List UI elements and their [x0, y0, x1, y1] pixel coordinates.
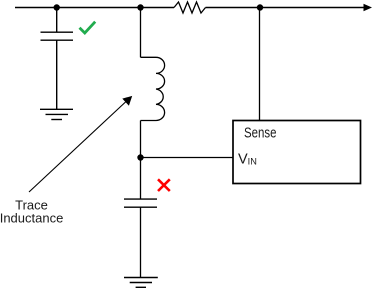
check mark (good capacitor): [80, 22, 96, 33]
wire: node B down to inductor: [140, 8, 142, 58]
wire: node C down to sense box: [259, 8, 261, 121]
svg-text:Sense: Sense: [244, 126, 277, 142]
svg-text:VIN: VIN: [238, 151, 257, 167]
capacitor C2: [124, 199, 157, 207]
wire: node D to VIN pin of sense box: [141, 157, 234, 159]
wire: C1 to ground: [56, 40, 58, 109]
node C (junction dot, sense tap): [257, 4, 263, 10]
node B (junction dot, inductor tap): [137, 4, 143, 10]
ground (right): [124, 278, 158, 288]
wire: node D down to C2: [140, 158, 142, 200]
annotation arrow (points at trace inductance): [29, 96, 132, 192]
node A (junction dot, left capacitor tap): [54, 4, 60, 10]
inductor L1 (trace inductance): [141, 57, 165, 120]
node D (junction dot above bad capacitor): [137, 154, 143, 160]
wire: node A down to C1: [56, 8, 58, 33]
svg-text:Inductance: Inductance: [0, 210, 63, 225]
wire: top rail right segment with arrowhead: [206, 4, 373, 12]
wire: inductor to node D: [140, 121, 142, 158]
op-amp U1 (Sense block): [233, 121, 361, 184]
wire: C2 to ground: [140, 207, 142, 277]
ground (left): [40, 109, 73, 119]
capacitor C1: [41, 32, 74, 40]
resistor R1: [174, 2, 206, 13]
wire: top rail left segment: [15, 7, 174, 9]
label Trace Inductance: [0, 197, 63, 225]
X mark (bad capacitor): [158, 179, 170, 191]
